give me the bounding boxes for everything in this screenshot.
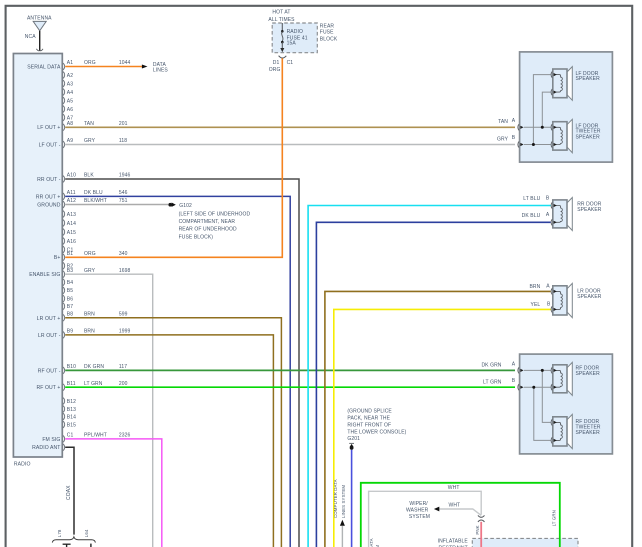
svg-text:B13: B13 — [67, 407, 76, 413]
wire PPL (blue) to ground splice G201 (from page bottom) — [351, 450, 353, 547]
radio pin A12 — [63, 198, 128, 208]
svg-text:RR OUT -: RR OUT - — [37, 177, 61, 183]
radio pin A10 — [63, 173, 131, 183]
svg-text:B6: B6 — [67, 296, 73, 302]
svg-text:201: 201 — [119, 121, 128, 127]
svg-text:L64: L64 — [84, 529, 89, 537]
radio pin B4 — [63, 279, 73, 286]
svg-text:TAN: TAN — [84, 121, 94, 127]
radio pin B12 — [63, 398, 76, 405]
label G102 with location note — [179, 203, 251, 240]
wire GRY 1698 enable signal (B3), runs off page bottom — [65, 274, 153, 547]
svg-text:WASHER: WASHER — [406, 508, 429, 514]
svg-text:A15: A15 — [67, 230, 76, 236]
svg-text:ANTENNA: ANTENNA — [27, 16, 52, 22]
svg-text:1698: 1698 — [119, 268, 131, 274]
radio pin A13 — [63, 211, 76, 218]
wire BLK 1946 RR OUT - (A10), runs off page bottom — [65, 179, 299, 547]
svg-text:BRN: BRN — [84, 329, 95, 335]
svg-text:PACK, NEAR THE: PACK, NEAR THE — [347, 415, 390, 421]
radio pin C1 — [63, 246, 74, 253]
radio pin B1 — [63, 251, 128, 261]
LF door tweeter speaker SP2 — [567, 119, 572, 152]
svg-text:ORG: ORG — [84, 251, 96, 257]
label LF DOOR SPEAKER — [576, 71, 601, 82]
svg-text:B12: B12 — [67, 399, 76, 405]
radio pin A6 — [63, 106, 73, 113]
label RR DOOR SPEAKER — [577, 202, 602, 213]
svg-text:A6: A6 — [67, 107, 73, 113]
svg-text:C1: C1 — [287, 60, 294, 66]
svg-text:HOT AT: HOT AT — [272, 10, 290, 16]
svg-text:A1: A1 — [67, 60, 73, 66]
junction on LT GRN lead — [532, 386, 535, 389]
svg-text:GRY: GRY — [497, 136, 509, 142]
connector braces L78 / L64 at bottom of coax — [52, 537, 95, 543]
svg-text:LR OUT +: LR OUT + — [37, 316, 61, 322]
svg-text:LT GRN: LT GRN — [552, 510, 557, 526]
svg-text:ALL TIMES: ALL TIMES — [268, 17, 295, 23]
svg-text:DK BLU: DK BLU — [84, 190, 103, 196]
wire PNK into inflatable restraint system box — [480, 522, 482, 547]
RR door speaker SP3 — [567, 198, 572, 231]
RF door speaker SP5 — [567, 362, 572, 395]
svg-text:RIGHT FRONT OF: RIGHT FRONT OF — [347, 423, 391, 429]
radio pin B10 — [63, 364, 127, 374]
LF door speaker assembly box — [520, 52, 613, 162]
svg-text:A9: A9 — [67, 138, 73, 144]
svg-text:B14: B14 — [67, 414, 76, 420]
svg-text:LT BLU: LT BLU — [523, 196, 540, 202]
svg-text:BRN: BRN — [529, 284, 540, 290]
svg-text:COAX: COAX — [66, 485, 72, 500]
svg-text:1946: 1946 — [119, 173, 131, 179]
wire BRN to LR door speaker pin A (from page bottom) — [325, 291, 551, 547]
radio pin A11 — [63, 190, 128, 200]
radio pin A15 — [63, 229, 76, 236]
label WIPER/WASHER SYSTEM — [406, 501, 430, 520]
svg-text:A: A — [546, 283, 550, 289]
svg-text:A11: A11 — [67, 190, 76, 196]
wire DK BLU to RR door speaker pin A (from page bottom) — [316, 222, 550, 547]
svg-text:REAR OF UNDERHOOD: REAR OF UNDERHOOD — [179, 227, 237, 233]
svg-text:117: 117 — [119, 364, 127, 370]
svg-text:546: 546 — [119, 190, 128, 196]
svg-text:YEL: YEL — [531, 302, 541, 308]
wire ORG 340 B+ from fuse block (B1) — [65, 58, 282, 257]
wire GRY 118 LF OUT - (A9) — [65, 144, 515, 146]
svg-text:B: B — [547, 301, 551, 307]
svg-text:SPEAKER: SPEAKER — [577, 294, 602, 300]
junction on GRY lead — [532, 143, 535, 146]
svg-text:G201: G201 — [347, 436, 360, 442]
radio pin B11 — [63, 381, 128, 391]
svg-text:COMPUTER DATA: COMPUTER DATA — [369, 538, 374, 547]
svg-text:A13: A13 — [67, 212, 76, 218]
svg-text:BLK: BLK — [84, 173, 94, 179]
radio pin A4 — [63, 89, 73, 96]
svg-text:B: B — [546, 195, 550, 201]
svg-text:FUSE: FUSE — [320, 30, 334, 36]
svg-text:A: A — [512, 361, 516, 367]
svg-text:B10: B10 — [67, 364, 76, 370]
radio pin A3 — [63, 80, 73, 87]
svg-text:INFLATABLE: INFLATABLE — [438, 539, 469, 545]
wire LT BLU to RR door speaker pin B (from page bottom) — [308, 206, 550, 547]
svg-text:GROUND: GROUND — [37, 203, 60, 209]
svg-text:SPEAKER: SPEAKER — [576, 371, 601, 377]
off-page arrow WIPER/WASHER SYSTEM — [434, 507, 439, 512]
svg-text:FM SIG: FM SIG — [42, 437, 60, 443]
svg-text:LF OUT +: LF OUT + — [37, 125, 60, 131]
svg-text:GRY: GRY — [84, 138, 96, 144]
off-page arrow DATA LINES — [142, 62, 169, 74]
svg-text:599: 599 — [119, 311, 128, 317]
svg-text:A3: A3 — [67, 81, 73, 87]
wire WHT to wiper/washer system (from page bottom) — [369, 491, 482, 547]
LF door speaker SP1 — [567, 67, 572, 101]
svg-text:ORG: ORG — [84, 60, 96, 66]
label REAR FUSE BLOCK — [320, 23, 338, 42]
label COMPUTER DATA LINES SYSTEM (vertical) — [333, 479, 346, 518]
svg-text:C1: C1 — [67, 433, 74, 439]
junction on DK GRN lead — [541, 369, 544, 372]
wire LT GRN bridge (from page bottom up and around wiper area) — [361, 483, 560, 547]
radio pin B14 — [63, 413, 76, 420]
svg-text:BLK/WHT: BLK/WHT — [84, 198, 107, 204]
svg-text:L78: L78 — [57, 529, 62, 537]
radio pin A7 — [63, 114, 73, 121]
label RF DOOR SPEAKER — [576, 365, 601, 376]
radio pin A9 — [63, 138, 127, 148]
label G201 with location note — [347, 408, 406, 442]
svg-text:118: 118 — [119, 138, 127, 144]
svg-text:SPEAKER: SPEAKER — [576, 134, 601, 140]
computer data lines reference arrow (off-page, up) — [340, 520, 345, 547]
radio pin A5 — [63, 97, 73, 104]
svg-text:G102: G102 — [179, 203, 192, 209]
in-line connector between WHT and PNK — [478, 515, 485, 517]
svg-text:WHT: WHT — [448, 485, 460, 491]
svg-text:FUSE BLOCK): FUSE BLOCK) — [179, 234, 214, 240]
svg-text:WIPER/: WIPER/ — [409, 501, 428, 507]
label LR DOOR SPEAKER — [577, 288, 602, 299]
wire YEL to LR door speaker pin B (from page bottom) — [334, 309, 551, 547]
svg-text:LT GRN: LT GRN — [483, 380, 502, 386]
wire ORG 1044 serial data (A1) — [65, 66, 142, 68]
radio pin A14 — [63, 220, 76, 227]
svg-text:A8: A8 — [67, 121, 73, 127]
LR door speaker SP4 — [567, 283, 572, 317]
svg-text:NCA: NCA — [25, 34, 36, 40]
svg-text:BRN: BRN — [84, 311, 95, 317]
svg-text:A4: A4 — [67, 90, 73, 96]
svg-text:B7: B7 — [67, 304, 73, 310]
svg-text:A16: A16 — [67, 239, 76, 245]
svg-text:200: 200 — [119, 381, 128, 387]
rear fuse block (dashed box) — [272, 23, 317, 53]
RF panel internal wiring — [524, 369, 551, 371]
svg-text:GRY: GRY — [84, 268, 96, 274]
svg-text:RADIO ANT: RADIO ANT — [32, 445, 60, 451]
wire TAN 201 LF OUT + (A8) — [65, 126, 515, 128]
svg-text:D1: D1 — [273, 60, 280, 66]
svg-text:2326: 2326 — [119, 433, 131, 439]
svg-text:B: B — [512, 135, 516, 141]
svg-text:PPL/WHT: PPL/WHT — [84, 433, 107, 439]
svg-text:ENABLE SIG: ENABLE SIG — [29, 272, 60, 278]
radio pin A2 — [63, 72, 73, 79]
svg-text:SPEAKER: SPEAKER — [576, 76, 601, 82]
RF door tweeter speaker SP6 — [567, 414, 572, 448]
svg-text:RR OUT +: RR OUT + — [36, 194, 61, 200]
svg-text:TAN: TAN — [498, 119, 508, 125]
radio pin B9 — [63, 329, 131, 339]
svg-text:A: A — [512, 118, 516, 124]
wire LT GRN 200 RF OUT + (B11) — [65, 386, 515, 388]
label RF DOOR TWEETER SPEAKER — [576, 419, 601, 436]
svg-text:A2: A2 — [67, 73, 73, 79]
svg-text:A14: A14 — [67, 221, 76, 227]
svg-text:340: 340 — [119, 251, 128, 257]
svg-text:WHT: WHT — [449, 502, 461, 508]
svg-text:REAR: REAR — [320, 23, 335, 29]
svg-text:DK BLU: DK BLU — [522, 213, 541, 219]
label LF DOOR TWEETER SPEAKER — [576, 123, 601, 140]
svg-text:B1: B1 — [67, 251, 73, 257]
svg-text:B5: B5 — [67, 288, 73, 294]
radio pin A16 — [63, 238, 76, 245]
inflatable restraint system (dashed box, clipped) — [472, 538, 578, 547]
svg-text:LINES: LINES — [153, 68, 169, 74]
junction on TAN lead — [541, 126, 544, 129]
svg-text:1044: 1044 — [119, 60, 131, 66]
RF door speaker assembly box — [520, 354, 613, 454]
svg-text:15A: 15A — [287, 41, 297, 47]
label COMPUTER DATA LINES SYSTEM (vertical, clipped at page bottom) — [369, 538, 380, 547]
svg-text:ORG: ORG — [269, 67, 281, 73]
antenna symbol — [33, 21, 46, 50]
svg-text:A10: A10 — [67, 173, 76, 179]
fuse F41 (RADIO FUSE 41 15A) — [280, 23, 284, 52]
partial component below brace (clipped at page bottom) — [63, 544, 91, 547]
svg-text:RF OUT -: RF OUT - — [38, 368, 61, 374]
svg-text:PNK: PNK — [475, 525, 480, 534]
svg-text:COMPARTMENT, NEAR: COMPARTMENT, NEAR — [179, 219, 236, 225]
radio pin A8 — [63, 121, 128, 131]
label INFLATABLE RESTRAINT — [438, 539, 469, 547]
radio pin C1 — [63, 433, 131, 443]
wire PPL/WHT 2326 FM signal (C1), runs off page bottom — [65, 439, 162, 547]
radio unit U1 box — [13, 54, 62, 458]
svg-text:DK GRN: DK GRN — [84, 364, 104, 370]
svg-text:B4: B4 — [67, 280, 73, 286]
svg-text:SYSTEM: SYSTEM — [409, 514, 430, 520]
coax antenna lead from RADIO ANT — [65, 447, 74, 534]
radio pin B15 — [63, 421, 76, 428]
svg-text:BLOCK: BLOCK — [320, 36, 338, 42]
wire BRN 599 LR OUT + (B8), runs off page bottom — [65, 318, 281, 547]
svg-text:B9: B9 — [67, 329, 73, 335]
svg-text:1999: 1999 — [119, 329, 131, 335]
svg-text:LF OUT -: LF OUT - — [39, 143, 61, 149]
svg-text:RF OUT +: RF OUT + — [36, 385, 60, 391]
fuse labels RADIO FUSE 41 15A — [287, 29, 308, 47]
wire WHT branch to wiper/washer system — [439, 509, 481, 515]
svg-text:SPEAKER: SPEAKER — [577, 207, 602, 213]
radio pin B3 — [63, 268, 131, 278]
svg-text:(GROUND SPLICE: (GROUND SPLICE — [347, 408, 392, 414]
svg-text:LINES SYSTEM: LINES SYSTEM — [341, 485, 346, 518]
RF panel pin entries — [518, 367, 519, 373]
connector under fuse block (D1 / C1) — [279, 56, 287, 58]
svg-text:LT GRN: LT GRN — [84, 381, 103, 387]
svg-text:A5: A5 — [67, 98, 73, 104]
svg-text:A12: A12 — [67, 198, 76, 204]
svg-text:(LEFT SIDE OF UNDERHOOD: (LEFT SIDE OF UNDERHOOD — [179, 211, 251, 217]
svg-text:B11: B11 — [67, 381, 76, 387]
svg-text:LR OUT -: LR OUT - — [38, 333, 61, 339]
label HOT AT ALL TIMES — [268, 10, 295, 23]
radio pin B6 — [63, 295, 73, 302]
svg-text:751: 751 — [119, 198, 128, 204]
radio pin B2 — [63, 262, 73, 269]
ground splice G102 — [168, 203, 175, 207]
svg-text:B15: B15 — [67, 422, 76, 428]
ground splice G201 symbol — [349, 443, 354, 449]
radio pin B7 — [63, 303, 73, 310]
svg-text:B3: B3 — [67, 268, 73, 274]
svg-text:SPEAKER: SPEAKER — [576, 430, 601, 436]
svg-text:B8: B8 — [67, 311, 73, 317]
svg-text:B+: B+ — [54, 255, 61, 261]
wire BRN 1999 LR OUT - (B9), runs off page bottom — [65, 335, 273, 547]
svg-text:THE LOWER CONSOLE): THE LOWER CONSOLE) — [347, 430, 406, 436]
wire DK GRN 117 RF OUT - (B10) — [65, 369, 515, 371]
LF panel pin entries — [518, 124, 519, 130]
wire BLK/WHT 751 ground (A12) — [65, 204, 168, 206]
svg-text:COMPUTER DATA: COMPUTER DATA — [333, 479, 338, 518]
svg-text:B: B — [512, 378, 516, 384]
svg-text:A: A — [546, 212, 550, 218]
svg-text:RADIO: RADIO — [14, 461, 31, 467]
LF panel internal wiring — [524, 126, 551, 128]
svg-text:DK GRN: DK GRN — [481, 363, 501, 369]
radio pin RADIO ANT — [63, 444, 65, 451]
radio pin B5 — [63, 287, 73, 294]
radio pin A1 — [63, 60, 131, 70]
radio pin B8 — [63, 311, 128, 321]
svg-text:SERIAL DATA: SERIAL DATA — [27, 65, 61, 71]
wire DK BLU 546 RR OUT + (A11), runs off page bottom — [65, 196, 290, 547]
radio pin B13 — [63, 406, 76, 413]
svg-text:RADIO: RADIO — [287, 29, 303, 35]
